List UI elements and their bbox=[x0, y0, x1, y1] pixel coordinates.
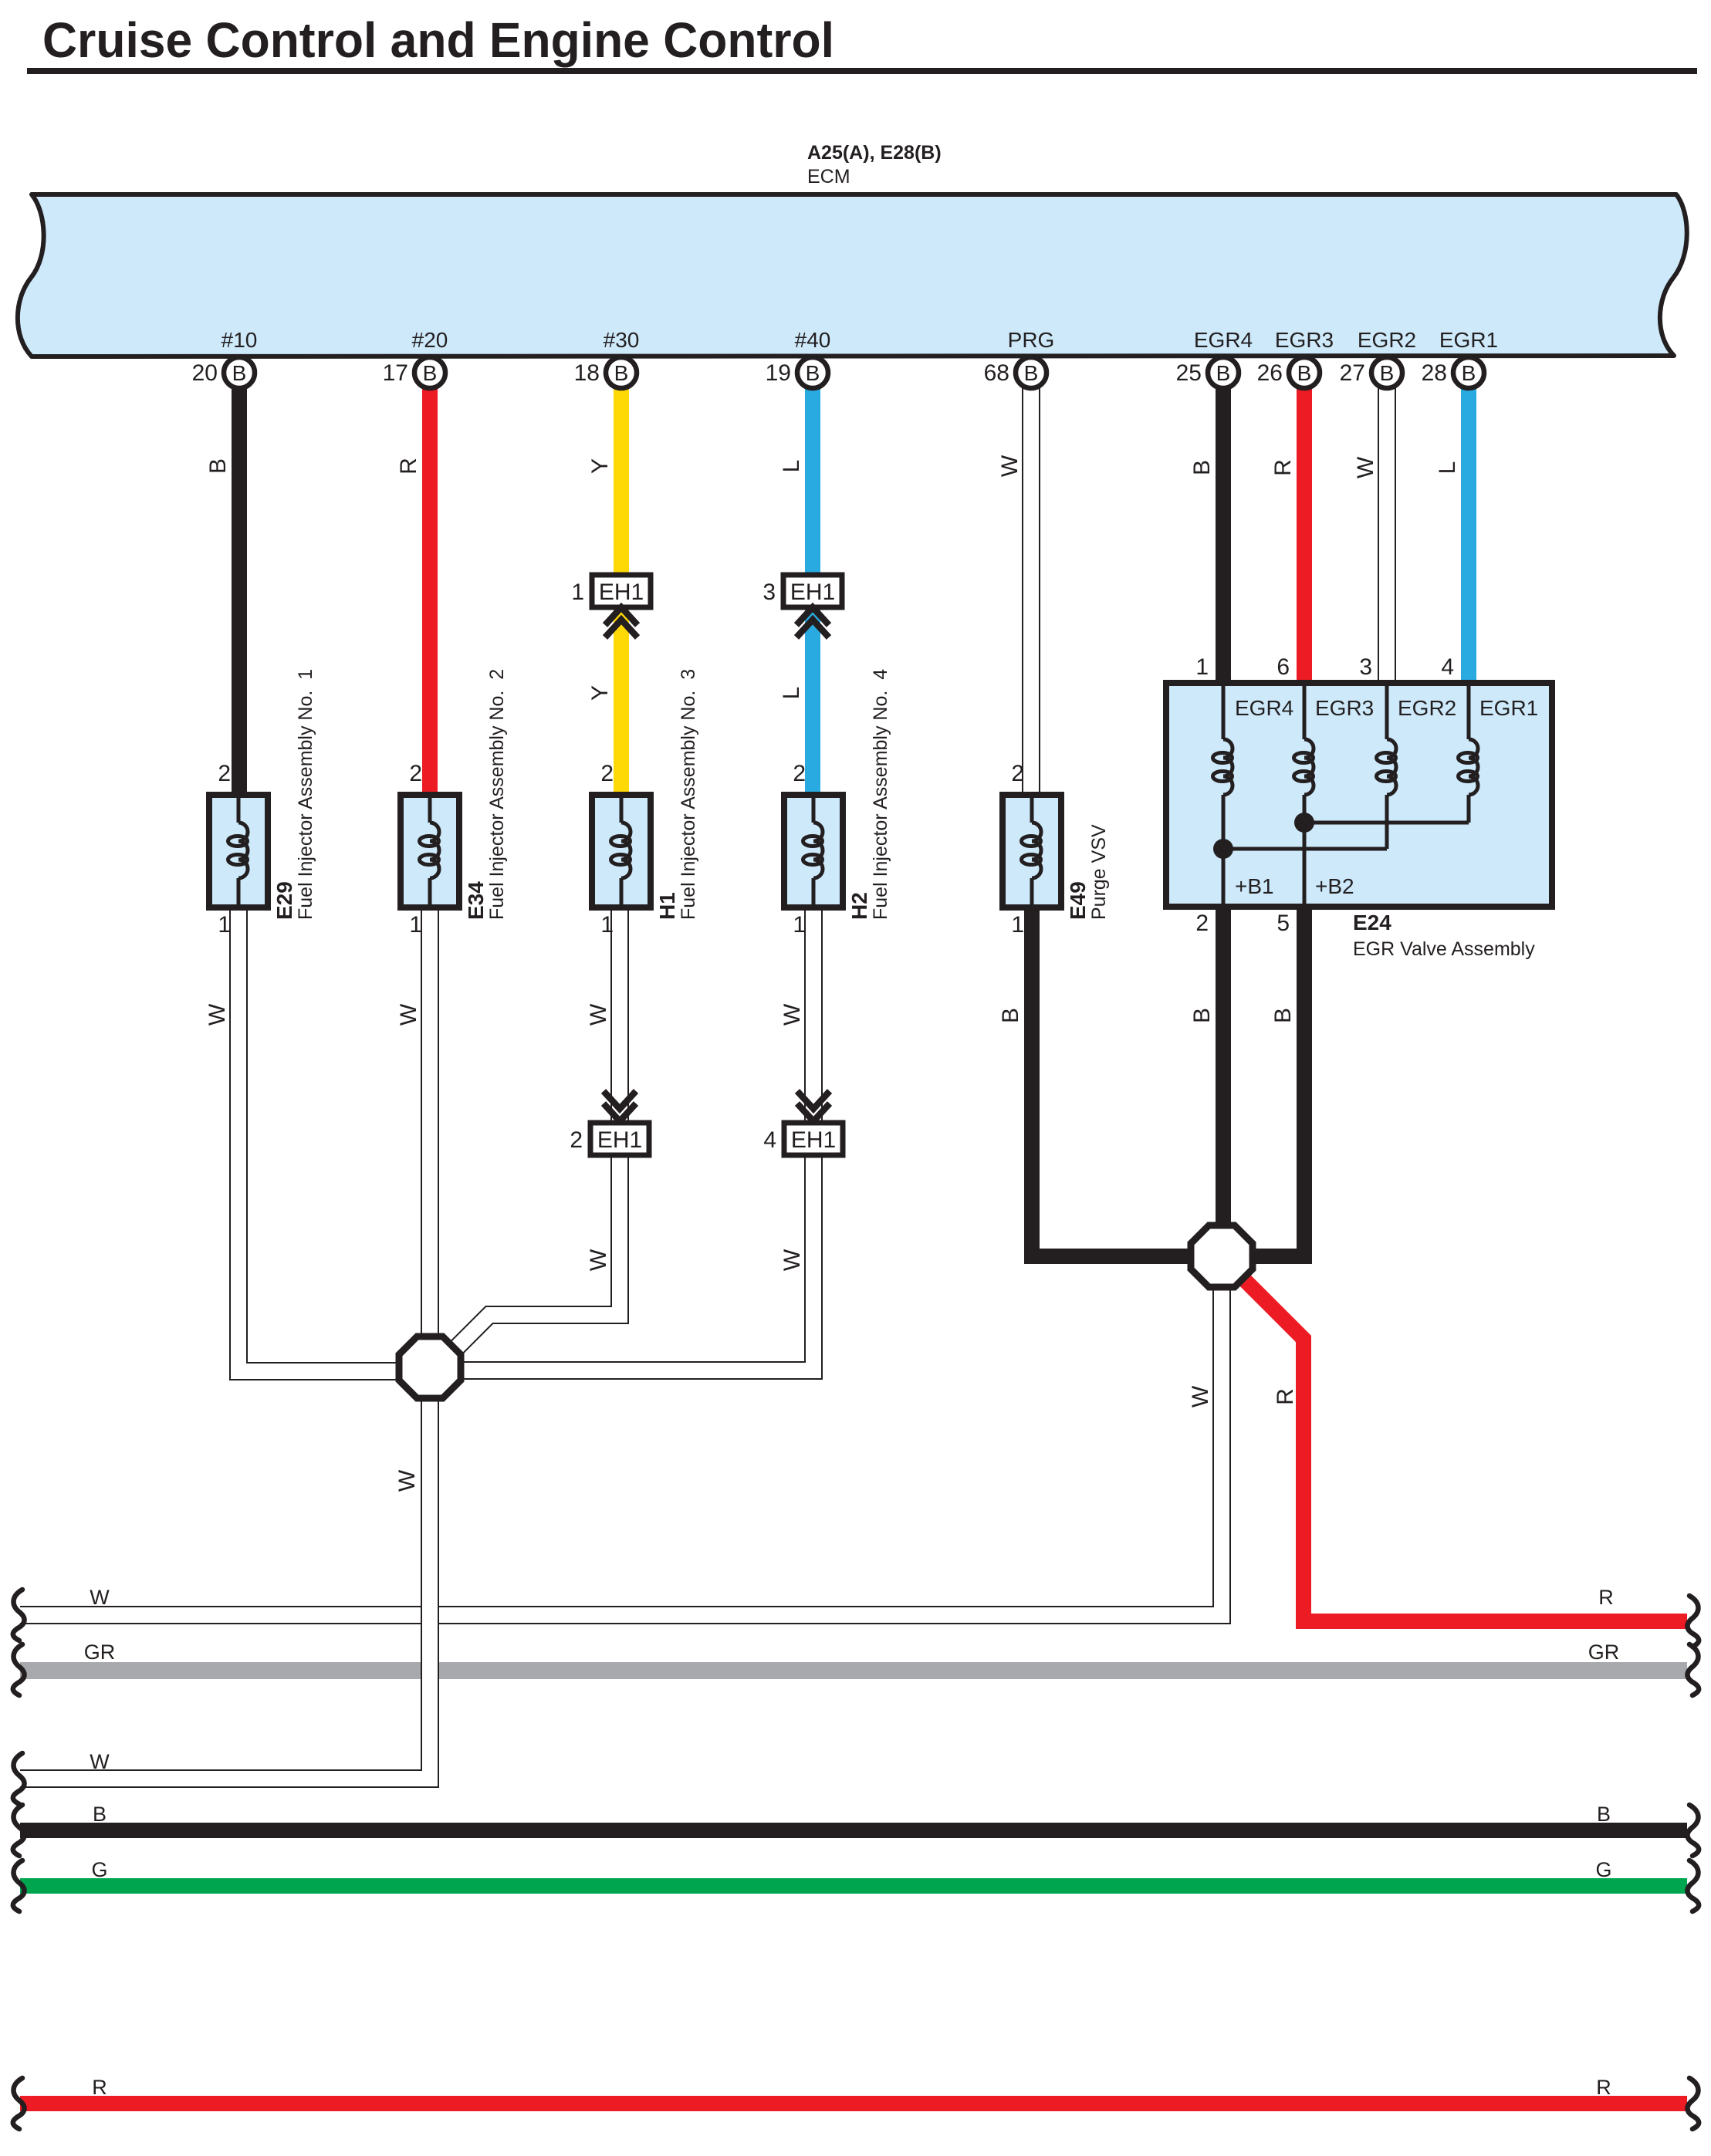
svg-text:Cruise Control and Engine Cont: Cruise Control and Engine Control bbox=[42, 12, 834, 68]
svg-text:B: B bbox=[1189, 460, 1215, 475]
svg-text:R: R bbox=[396, 458, 421, 475]
svg-text:B: B bbox=[1380, 361, 1395, 385]
svg-text:R: R bbox=[1273, 1388, 1298, 1405]
svg-text:Fuel Injector Assembly No. 1: Fuel Injector Assembly No. 1 bbox=[295, 669, 316, 920]
svg-text:EGR Valve Assembly: EGR Valve Assembly bbox=[1353, 938, 1535, 960]
svg-text:W: W bbox=[1353, 456, 1378, 478]
svg-text:R: R bbox=[1596, 2076, 1611, 2099]
svg-text:W: W bbox=[394, 1469, 420, 1492]
svg-text:20: 20 bbox=[192, 360, 218, 386]
svg-text:EH1: EH1 bbox=[791, 1127, 836, 1153]
svg-text:26: 26 bbox=[1257, 360, 1283, 386]
svg-text:W: W bbox=[1188, 1385, 1213, 1407]
svg-text:17: 17 bbox=[383, 360, 408, 386]
svg-text:E34: E34 bbox=[464, 881, 488, 920]
svg-text:L: L bbox=[779, 687, 804, 700]
svg-text:Purge VSV: Purge VSV bbox=[1088, 824, 1110, 920]
svg-text:E24: E24 bbox=[1353, 911, 1391, 934]
svg-text:W: W bbox=[779, 1003, 805, 1026]
svg-text:B: B bbox=[93, 1803, 107, 1826]
svg-text:W: W bbox=[586, 1249, 611, 1271]
svg-text:EGR2: EGR2 bbox=[1358, 328, 1416, 352]
svg-text:L: L bbox=[779, 460, 804, 473]
svg-text:W: W bbox=[205, 1003, 230, 1026]
svg-text:B: B bbox=[1189, 1008, 1215, 1023]
svg-text:Fuel Injector Assembly No. 2: Fuel Injector Assembly No. 2 bbox=[486, 669, 508, 920]
svg-text:H1: H1 bbox=[655, 892, 679, 920]
svg-text:2: 2 bbox=[793, 761, 806, 786]
svg-text:25: 25 bbox=[1176, 360, 1202, 386]
svg-text:B: B bbox=[1462, 361, 1476, 385]
svg-text:4: 4 bbox=[763, 1127, 776, 1153]
svg-text:EGR4: EGR4 bbox=[1235, 696, 1293, 720]
svg-text:4: 4 bbox=[1441, 654, 1454, 680]
svg-text:18: 18 bbox=[574, 360, 600, 386]
svg-text:B: B bbox=[1216, 361, 1231, 385]
svg-text:28: 28 bbox=[1422, 360, 1447, 386]
svg-text:#20: #20 bbox=[412, 328, 448, 352]
svg-text:1: 1 bbox=[1011, 912, 1024, 938]
svg-text:#40: #40 bbox=[795, 328, 831, 352]
svg-text:L: L bbox=[1435, 461, 1460, 475]
svg-text:EGR3: EGR3 bbox=[1275, 328, 1334, 352]
svg-text:2: 2 bbox=[409, 761, 422, 786]
svg-text:2: 2 bbox=[1011, 761, 1024, 786]
svg-text:B: B bbox=[1270, 1008, 1296, 1023]
svg-text:+B2: +B2 bbox=[1315, 874, 1354, 898]
svg-text:W: W bbox=[779, 1249, 805, 1271]
svg-text:1: 1 bbox=[600, 912, 614, 938]
svg-text:B: B bbox=[806, 361, 820, 385]
svg-text:Y: Y bbox=[587, 458, 613, 474]
svg-text:EGR3: EGR3 bbox=[1315, 696, 1374, 720]
svg-text:W: W bbox=[90, 1750, 110, 1773]
svg-text:W: W bbox=[997, 455, 1023, 477]
svg-text:Fuel Injector Assembly No. 4: Fuel Injector Assembly No. 4 bbox=[870, 669, 891, 920]
svg-text:B: B bbox=[1297, 361, 1312, 385]
svg-text:19: 19 bbox=[766, 360, 791, 386]
svg-text:2: 2 bbox=[1195, 911, 1209, 936]
svg-text:ECM: ECM bbox=[807, 166, 850, 188]
svg-text:GR: GR bbox=[1588, 1641, 1620, 1664]
svg-text:5: 5 bbox=[1276, 911, 1290, 936]
svg-text:EGR2: EGR2 bbox=[1398, 696, 1456, 720]
svg-text:#30: #30 bbox=[604, 328, 640, 352]
svg-text:2: 2 bbox=[600, 761, 614, 786]
svg-text:B: B bbox=[232, 361, 247, 385]
svg-text:R: R bbox=[1598, 1586, 1614, 1609]
svg-text:B: B bbox=[1024, 361, 1039, 385]
svg-text:H2: H2 bbox=[847, 892, 871, 920]
svg-text:W: W bbox=[586, 1003, 611, 1026]
svg-text:W: W bbox=[396, 1003, 421, 1026]
svg-text:Y: Y bbox=[587, 685, 613, 701]
svg-text:Fuel Injector Assembly No. 3: Fuel Injector Assembly No. 3 bbox=[678, 669, 699, 920]
svg-text:+B1: +B1 bbox=[1235, 874, 1274, 898]
svg-text:#10: #10 bbox=[221, 328, 258, 352]
svg-text:PRG: PRG bbox=[1008, 328, 1055, 352]
svg-text:27: 27 bbox=[1340, 360, 1365, 386]
svg-text:1: 1 bbox=[571, 580, 584, 605]
svg-text:W: W bbox=[90, 1586, 110, 1609]
svg-text:EGR4: EGR4 bbox=[1194, 328, 1253, 352]
svg-text:68: 68 bbox=[984, 360, 1009, 386]
svg-text:3: 3 bbox=[763, 580, 776, 605]
svg-text:E49: E49 bbox=[1066, 881, 1090, 920]
svg-text:B: B bbox=[614, 361, 629, 385]
svg-text:GR: GR bbox=[84, 1641, 116, 1664]
svg-text:EH1: EH1 bbox=[597, 1127, 642, 1153]
svg-text:A25(A), E28(B): A25(A), E28(B) bbox=[807, 142, 942, 164]
svg-text:6: 6 bbox=[1276, 654, 1290, 680]
svg-text:B: B bbox=[998, 1008, 1023, 1023]
svg-text:1: 1 bbox=[793, 912, 806, 938]
svg-text:1: 1 bbox=[409, 912, 422, 938]
svg-text:EH1: EH1 bbox=[599, 580, 644, 605]
svg-text:2: 2 bbox=[570, 1127, 583, 1153]
svg-text:EH1: EH1 bbox=[790, 580, 835, 605]
svg-text:R: R bbox=[92, 2076, 107, 2099]
svg-text:R: R bbox=[1270, 459, 1296, 476]
svg-text:B: B bbox=[423, 361, 438, 385]
svg-text:EGR1: EGR1 bbox=[1439, 328, 1498, 352]
svg-text:1: 1 bbox=[218, 912, 231, 938]
svg-text:G: G bbox=[91, 1858, 107, 1881]
svg-text:B: B bbox=[205, 458, 231, 474]
svg-text:3: 3 bbox=[1359, 654, 1372, 680]
svg-text:1: 1 bbox=[1195, 654, 1209, 680]
svg-text:2: 2 bbox=[218, 761, 231, 786]
svg-text:E29: E29 bbox=[272, 881, 296, 920]
svg-text:EGR1: EGR1 bbox=[1479, 696, 1538, 720]
svg-text:G: G bbox=[1595, 1858, 1611, 1881]
svg-text:B: B bbox=[1597, 1803, 1611, 1826]
